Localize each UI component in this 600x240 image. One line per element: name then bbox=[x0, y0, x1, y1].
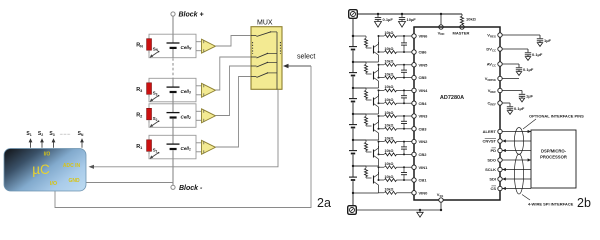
pin SCLK interface wire bbox=[498, 167, 502, 171]
svg-text:Cell1: Cell1 bbox=[181, 146, 191, 152]
svg-text:ALERT: ALERT bbox=[483, 129, 497, 134]
svg-text:MUX: MUX bbox=[257, 20, 273, 27]
svg-text:10kΩ: 10kΩ bbox=[466, 17, 477, 22]
resistor R3 bbox=[147, 83, 152, 95]
cell unit box 1 bbox=[149, 34, 196, 58]
node Block- terminal bbox=[171, 185, 175, 189]
svg-text:PROCESSOR: PROCESSOR bbox=[540, 155, 567, 160]
svg-text:VIN6: VIN6 bbox=[419, 34, 429, 39]
pin VREF with decoupling bbox=[498, 88, 502, 92]
cell unit box 4 bbox=[149, 135, 196, 159]
svg-text:1µF: 1µF bbox=[526, 94, 534, 99]
wire cell stack segment 2-3 bbox=[172, 102, 174, 104]
battery CellN bbox=[172, 34, 174, 43]
resistor balance group 3 bbox=[365, 114, 367, 116]
svg-text:PD: PD bbox=[490, 148, 496, 153]
battery Cell2 bbox=[172, 104, 174, 113]
svg-text:10kΩ: 10kΩ bbox=[385, 60, 394, 64]
svg-text:VIN1: VIN1 bbox=[419, 165, 429, 170]
svg-text:10kΩ: 10kΩ bbox=[385, 111, 394, 115]
svg-text:10kΩ: 10kΩ bbox=[385, 124, 394, 128]
resistor 10k row CB6 bbox=[379, 51, 385, 53]
svg-text:VREG: VREG bbox=[487, 33, 496, 39]
pin VIN2 bbox=[412, 139, 416, 143]
pin VDD bbox=[440, 13, 442, 15]
svg-text:CB3: CB3 bbox=[419, 126, 428, 131]
svg-text:0.1µF: 0.1µF bbox=[383, 17, 394, 22]
resistor balance group 5 bbox=[365, 62, 367, 64]
transistor Q4 bbox=[366, 99, 372, 101]
svg-text:Cell3: Cell3 bbox=[181, 89, 191, 95]
pin CS interface wire bbox=[498, 186, 502, 190]
pin VIN0 bbox=[412, 191, 416, 195]
wire uC GND to Block- bbox=[86, 182, 173, 184]
resistor 10k row CB3 bbox=[379, 128, 385, 130]
svg-text:2b: 2b bbox=[577, 196, 591, 210]
svg-text:10kΩ: 10kΩ bbox=[385, 188, 394, 192]
node optional pins group ellipse bbox=[514, 128, 523, 155]
capacitor 0.1uF supply bbox=[377, 13, 379, 15]
svg-text:VDD: VDD bbox=[438, 31, 445, 37]
resistor 10k row CB5 bbox=[379, 77, 385, 79]
resistor 10k row VIN3 bbox=[379, 115, 385, 117]
svg-text:Cell2: Cell2 bbox=[181, 114, 191, 120]
svg-text:SDI: SDI bbox=[489, 177, 496, 182]
svg-text:2a: 2a bbox=[317, 196, 331, 210]
svg-text:AVCC: AVCC bbox=[487, 62, 496, 68]
svg-text:CB2: CB2 bbox=[419, 152, 428, 157]
battery cell 3 bbox=[352, 114, 354, 124]
pin VIN3 bbox=[412, 114, 416, 118]
svg-text:10kΩ: 10kΩ bbox=[385, 149, 394, 153]
battery Cell3 bbox=[172, 78, 174, 87]
pin VDRIVE bbox=[498, 76, 502, 80]
battery cell 1 bbox=[352, 166, 354, 177]
capacitor filter group 4 bbox=[403, 90, 405, 95]
resistor 10k MASTER pullup bbox=[461, 14, 463, 16]
pin CB3 bbox=[412, 127, 416, 131]
wire mesh group 3 bbox=[378, 116, 380, 129]
svg-text:select: select bbox=[297, 54, 315, 61]
pin CB5 bbox=[412, 75, 416, 79]
svg-text:VIN2: VIN2 bbox=[419, 139, 429, 144]
svg-text:10kΩ: 10kΩ bbox=[385, 162, 394, 166]
svg-text:S2: S2 bbox=[153, 116, 158, 122]
node battery tap 4 bbox=[352, 87, 354, 89]
wire bottom return bbox=[357, 209, 442, 211]
resistor 10k row VIN5 bbox=[379, 64, 385, 66]
resistor 10k row VIN0 bbox=[379, 192, 385, 194]
svg-text:I/O: I/O bbox=[50, 181, 58, 187]
svg-text:10kΩ: 10kΩ bbox=[385, 72, 394, 76]
svg-text:SCLK: SCLK bbox=[485, 167, 496, 172]
multiplexer MUX box bbox=[251, 27, 282, 90]
svg-text:VIN0: VIN0 bbox=[419, 190, 429, 195]
node battery tap 3 bbox=[352, 113, 354, 115]
svg-text:0.1µF: 0.1µF bbox=[532, 52, 543, 57]
capacitor filter group 2 bbox=[403, 142, 405, 147]
node Block+ terminal bbox=[171, 12, 175, 16]
resistor balance group 6 bbox=[365, 36, 367, 38]
svg-text:VREF: VREF bbox=[488, 88, 497, 94]
wire top supply bbox=[358, 13, 463, 15]
battery cell 2 bbox=[352, 140, 354, 150]
switch MUX channel 4 bbox=[251, 76, 257, 78]
pin VREG with decoupling bbox=[498, 33, 502, 37]
svg-text:S3: S3 bbox=[153, 91, 158, 97]
switch MUX channel 1 bbox=[251, 35, 257, 37]
ground symbol bbox=[419, 209, 421, 211]
resistor balance group 1 bbox=[365, 166, 367, 168]
resistor 10k row CB1 bbox=[379, 179, 385, 181]
wire cell stack to Block- bbox=[172, 159, 174, 185]
capacitor filter group 6 bbox=[403, 36, 405, 43]
pin CB2 bbox=[412, 152, 416, 156]
connector battery positive bbox=[349, 10, 358, 19]
resistor balance group 4 bbox=[365, 88, 367, 90]
wire VIN6 feed bbox=[352, 35, 354, 37]
svg-text:OPTIONAL INTERFACE PINS: OPTIONAL INTERFACE PINS bbox=[529, 114, 584, 119]
pin CNVST interface wire bbox=[498, 139, 502, 143]
svg-text:S1: S1 bbox=[153, 148, 158, 154]
capacitor filter group 3 bbox=[403, 116, 405, 121]
resistor R2 bbox=[147, 108, 152, 120]
wire VSS to ground bbox=[440, 202, 442, 210]
svg-text:CellN: CellN bbox=[181, 45, 192, 51]
resistor 10k row VIN2 bbox=[379, 141, 385, 143]
wire mesh group 5 bbox=[378, 65, 380, 78]
svg-text:I/O: I/O bbox=[44, 152, 51, 158]
resistor 10k row VIN1 bbox=[379, 166, 385, 168]
svg-text:DSP/MICRO-: DSP/MICRO- bbox=[541, 149, 567, 154]
cell unit box 2 bbox=[149, 78, 196, 102]
transistor Q5 bbox=[366, 73, 372, 75]
capacitor 10uF supply bbox=[401, 13, 403, 15]
transistor Q3 bbox=[366, 125, 372, 127]
svg-text:VDRIVE: VDRIVE bbox=[485, 76, 496, 82]
wire op-amp3 output to MUX in3 bbox=[216, 66, 252, 116]
pin AVCC with decoupling bbox=[498, 62, 502, 66]
op-amp A2 bbox=[196, 85, 202, 87]
svg-text:DVCC: DVCC bbox=[486, 47, 496, 53]
capacitor filter group 1 bbox=[403, 167, 405, 172]
transistor Q6 bbox=[366, 47, 372, 49]
op-amp A4 bbox=[196, 142, 202, 144]
resistor 10k row CB2 bbox=[379, 153, 385, 155]
svg-text:0.1µF: 0.1µF bbox=[514, 106, 525, 111]
svg-text:10kΩ: 10kΩ bbox=[385, 136, 394, 140]
pin VIN5 bbox=[412, 63, 416, 67]
svg-text:CNVST: CNVST bbox=[482, 139, 496, 144]
pin PD interface wire bbox=[498, 148, 502, 152]
wire op-amp1 output to MUX in1 bbox=[216, 36, 252, 47]
wire mesh group 6 bbox=[378, 36, 380, 52]
pin ALERT interface wire bbox=[498, 129, 502, 133]
svg-text:10kΩ: 10kΩ bbox=[385, 31, 394, 35]
svg-text:ADC IN: ADC IN bbox=[63, 163, 81, 169]
wire mesh group 4 bbox=[378, 90, 380, 103]
node MUX bus dashes bbox=[252, 42, 254, 54]
svg-text:MASTER: MASTER bbox=[453, 31, 470, 36]
op-amp A1 bbox=[196, 41, 202, 43]
battery Cell1 bbox=[172, 135, 174, 144]
wire dashed cell-stack continuation bbox=[172, 58, 174, 78]
switch MUX channel 3 bbox=[251, 65, 257, 67]
svg-text:CB5: CB5 bbox=[419, 75, 428, 80]
resistor 10k row VIN6 bbox=[379, 35, 385, 37]
svg-text:Block +: Block + bbox=[179, 12, 204, 19]
cell unit box 3 bbox=[149, 104, 196, 128]
transistor Q1 bbox=[366, 177, 372, 179]
svg-text:VIN4: VIN4 bbox=[419, 88, 429, 93]
wire select from uC I/O bbox=[55, 66, 311, 208]
resistor balance group 2 bbox=[365, 140, 367, 142]
pin CREF with decoupling bbox=[498, 101, 502, 105]
op-amp A3 bbox=[196, 110, 202, 112]
pin CB6 bbox=[412, 50, 416, 54]
svg-text:CB6: CB6 bbox=[419, 50, 428, 55]
processor DSP box bbox=[531, 130, 576, 188]
svg-text:10kΩ: 10kΩ bbox=[385, 175, 394, 179]
wire op-amp2 output to MUX in2 bbox=[216, 57, 252, 90]
svg-text:........: ........ bbox=[59, 131, 70, 137]
node battery tap 1 bbox=[352, 165, 354, 167]
svg-text:µC: µC bbox=[32, 162, 50, 177]
wire Block+ to cell stack bbox=[172, 16, 174, 34]
node SPI pins group ellipse bbox=[514, 154, 523, 194]
pin VIN1 bbox=[412, 165, 416, 169]
switch MUX channel 2 bbox=[251, 56, 257, 58]
wire cell stack segment 3-4 bbox=[172, 127, 174, 135]
resistor R1 bbox=[147, 140, 152, 152]
svg-text:VIN3: VIN3 bbox=[419, 114, 429, 119]
pin SDI interface wire bbox=[498, 177, 502, 181]
pin DVCC with decoupling bbox=[498, 47, 502, 51]
svg-text:10kΩ: 10kΩ bbox=[385, 85, 394, 89]
capacitor filter group 5 bbox=[403, 65, 405, 70]
wire op-amp4 output to MUX in4 bbox=[216, 77, 252, 148]
svg-text:Block -: Block - bbox=[179, 185, 203, 192]
IC AD7280A outline bbox=[414, 27, 500, 200]
battery cell 6 bbox=[352, 36, 354, 46]
svg-text:CS: CS bbox=[490, 186, 496, 191]
svg-text:10kΩ: 10kΩ bbox=[385, 98, 394, 102]
node battery tap 0 bbox=[352, 192, 354, 194]
wire mesh group 2 bbox=[378, 142, 380, 155]
pin CB1 bbox=[412, 178, 416, 182]
resistor RN bbox=[147, 39, 152, 51]
pin VIN4 bbox=[412, 88, 416, 92]
wire battery rail top bbox=[352, 19, 354, 37]
wire select control bbox=[286, 65, 312, 67]
svg-text:CREF: CREF bbox=[488, 101, 497, 107]
svg-text:GND: GND bbox=[68, 178, 80, 184]
wire MUX output bus bbox=[276, 32, 278, 90]
node battery tap 6 bbox=[352, 35, 354, 37]
connector battery negative bbox=[348, 206, 357, 215]
wire MUX output to ADC bbox=[92, 90, 278, 167]
svg-text:1µF: 1µF bbox=[544, 38, 552, 43]
transistor Q2 bbox=[366, 151, 372, 153]
svg-text:CB4: CB4 bbox=[419, 101, 428, 106]
svg-text:10µF: 10µF bbox=[407, 17, 417, 22]
pin CB4 bbox=[412, 101, 416, 105]
svg-text:CB1: CB1 bbox=[419, 178, 428, 183]
svg-text:AD7280A: AD7280A bbox=[440, 95, 464, 101]
battery cell 4 bbox=[352, 88, 354, 98]
svg-text:10kΩ: 10kΩ bbox=[385, 47, 394, 51]
svg-text:VSS: VSS bbox=[437, 192, 444, 198]
node battery tap 5 bbox=[352, 61, 354, 63]
svg-text:4-WIRE SPI INTERFACE: 4-WIRE SPI INTERFACE bbox=[528, 202, 574, 207]
battery cell 5 bbox=[352, 62, 354, 72]
svg-text:SDO: SDO bbox=[487, 158, 496, 163]
node battery tap 2 bbox=[352, 139, 354, 141]
wire battery rail bottom bbox=[352, 193, 354, 206]
resistor 10k row CB4 bbox=[379, 102, 385, 104]
resistor 10k row VIN4 bbox=[379, 89, 385, 91]
svg-text:0.1µF: 0.1µF bbox=[523, 67, 534, 72]
wire mesh group 1 bbox=[378, 167, 380, 180]
pin SDO interface wire bbox=[498, 158, 502, 162]
svg-text:VIN5: VIN5 bbox=[419, 62, 429, 67]
svg-text:SN: SN bbox=[153, 46, 159, 52]
pin VSS bbox=[439, 198, 443, 202]
pin VIN6 bbox=[412, 34, 416, 38]
